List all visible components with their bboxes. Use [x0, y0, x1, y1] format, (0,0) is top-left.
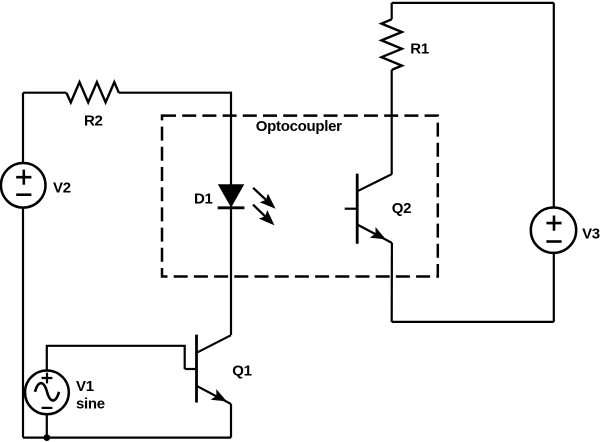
svg-text:V3: V3: [582, 225, 600, 242]
wire: top-left horizontal from left rail to R2: [23, 92, 66, 94]
svg-text:D1: D1: [194, 190, 213, 207]
transistor Q1: [185, 335, 231, 404]
wire: D1 cathode to Q1 collector: [230, 208, 232, 335]
resistor R1: [382, 19, 402, 70]
LED D1: [219, 185, 243, 206]
wire: R1 to Q2 collector: [391, 70, 393, 175]
svg-text:R2: R2: [84, 113, 103, 130]
svg-text:Q1: Q1: [232, 363, 251, 380]
svg-text:sine: sine: [76, 396, 105, 413]
svg-text:V1: V1: [76, 378, 94, 395]
transistor Q2: [345, 174, 392, 244]
wire: Q2 emitter down: [391, 243, 393, 322]
svg-text:Optocoupler: Optocoupler: [256, 118, 342, 135]
wire: bottom-right horizontal: [392, 321, 554, 323]
voltage source V3: [531, 208, 576, 253]
wire: V1 top to Q1 base (step): [47, 346, 185, 371]
optocoupler dashed box: [162, 116, 438, 277]
svg-text:Q2: Q2: [392, 200, 411, 217]
svg-text:V2: V2: [53, 179, 71, 196]
wire: V3 top lead: [553, 3, 555, 208]
Q1 emitter arrowhead: [211, 389, 227, 401]
LED light arrow 2: [253, 205, 275, 226]
voltage source V1 (sine): [25, 371, 69, 415]
wire: left rail bottom (V2 to bottom rail): [22, 208, 24, 438]
wire: left rail top (V2 top lead): [22, 93, 24, 163]
voltage source V2: [1, 163, 46, 208]
wire: R2 to D1 top corner: [119, 93, 231, 185]
wire: Q1 emitter down to bottom rail: [230, 404, 232, 438]
resistor R2: [66, 82, 118, 102]
wire: bottom rail: [23, 437, 231, 439]
wire: V1 bottom lead: [46, 414, 48, 437]
svg-text:R1: R1: [410, 41, 429, 58]
Q2 emitter arrowhead: [370, 227, 386, 239]
junction dot: [43, 434, 50, 441]
LED light arrow 1: [253, 188, 275, 209]
wire: V3 bottom lead: [553, 253, 555, 322]
wire: R1 top lead: [391, 3, 393, 19]
wire: top-right horizontal: [392, 2, 554, 4]
